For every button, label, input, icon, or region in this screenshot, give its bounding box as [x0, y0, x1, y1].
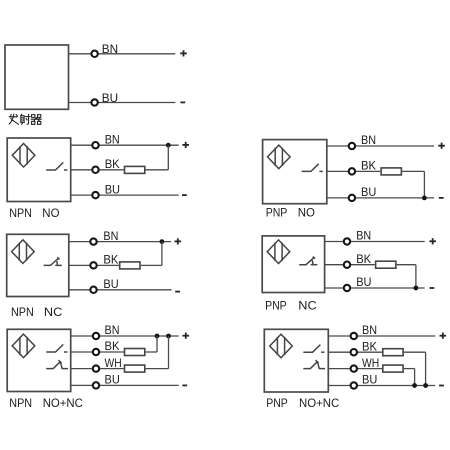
NC contact NPN NC [44, 257, 62, 265]
svg-text:BK: BK [362, 339, 377, 353]
plus transmitter + [180, 50, 187, 56]
wire WH left PNP NO+NC [328, 368, 382, 370]
svg-text:NC: NC [44, 305, 63, 319]
NO contact PNP NO [302, 164, 323, 172]
wire BN PNP NC [325, 241, 425, 243]
sensor box PNP NC [262, 236, 324, 293]
svg-text:NO: NO [42, 206, 59, 220]
junction BU first PNP NO+NC [412, 383, 417, 388]
NPN NC diagram [7, 229, 181, 319]
wire WH right PNP NO+NC [404, 368, 415, 370]
wire BK right NPN NO+NC [146, 351, 157, 353]
sensor symbol NPN NC [12, 240, 35, 264]
junction BU PNP NC [414, 286, 419, 291]
plus NPN NC + [175, 238, 182, 244]
NPN NO diagram [7, 132, 189, 220]
wire BU PNP NC [325, 287, 425, 289]
wire BN PNP NO [327, 145, 434, 147]
resistor WH load NPN NO+NC [125, 365, 145, 372]
terminal BU NPN NO [92, 192, 98, 198]
svg-text:BU: BU [362, 373, 377, 387]
svg-text:NO+NC: NO+NC [299, 396, 340, 410]
terminal WH PNP NO+NC [351, 365, 357, 371]
terminal BN PNP NO [349, 143, 355, 149]
resistor load PNP NC [376, 261, 396, 268]
caption 发射器 [9, 114, 41, 124]
terminal BU PNP NO [349, 195, 355, 201]
NO contact NPN NO+NC [46, 344, 67, 352]
terminal BK NPN NO [92, 167, 98, 173]
wire BK right PNP NC [397, 264, 416, 266]
sensor box PNP NO [263, 140, 327, 204]
junction BN first NPN NO+NC [155, 334, 160, 339]
svg-text:BU: BU [356, 275, 371, 289]
svg-text:NPN: NPN [9, 206, 32, 220]
wire WH left NPN NO+NC [71, 368, 124, 370]
sensor box transmitter [5, 45, 69, 109]
PNP NO diagram [263, 133, 445, 220]
svg-text:PNP: PNP [266, 206, 288, 220]
svg-text:BU: BU [361, 185, 376, 199]
svg-text:NC: NC [298, 298, 317, 312]
plus PNP NO+NC + [440, 333, 447, 339]
svg-text:NO+NC: NO+NC [43, 396, 84, 410]
svg-text:BK: BK [105, 339, 120, 353]
minus NPN NC - [175, 291, 180, 293]
terminal BK NPN NC [90, 262, 96, 268]
minus NPN NO - [182, 194, 187, 196]
resistor load NPN NC [120, 262, 140, 269]
terminal BN transmitter [91, 51, 97, 57]
junction BN second NPN NO+NC [166, 334, 171, 339]
wire BN PNP NO+NC [328, 335, 435, 337]
sensor symbol PNP NO+NC [270, 334, 293, 358]
sensor box NPN NO [7, 138, 70, 202]
minus transmitter - [180, 101, 185, 103]
svg-text:BN: BN [105, 323, 120, 337]
wire BK riser NPN NC [161, 242, 163, 266]
svg-text:BN: BN [105, 132, 120, 146]
wire BN NPN NO+NC [71, 335, 179, 337]
terminal BN NPN NC [90, 238, 96, 244]
wire BK left NPN NC [69, 264, 119, 266]
terminal BK PNP NO+NC [351, 349, 357, 355]
resistor BK load NPN NO+NC [125, 349, 145, 356]
svg-text:BU: BU [105, 182, 120, 196]
svg-text:WH: WH [105, 356, 122, 370]
wire WH dropper PNP NO+NC [414, 369, 416, 386]
minus NPN NO+NC - [182, 384, 187, 386]
wire BU transmitter [69, 102, 176, 104]
svg-text:BK: BK [103, 253, 118, 267]
terminal BN NPN NO [92, 142, 98, 148]
wire BU NPN NC [69, 289, 172, 291]
minus PNP NO - [439, 197, 444, 199]
svg-text:BK: BK [105, 157, 120, 171]
wire BK dropper PNP NC [415, 265, 417, 288]
terminal BU NPN NC [90, 287, 96, 293]
sensor symbol NPN NO+NC [12, 334, 35, 358]
terminal BU transmitter [91, 99, 97, 105]
wire BK riser NPN NO+NC [156, 336, 158, 352]
terminal BU NPN NO+NC [93, 382, 99, 388]
minus PNP NO+NC - [439, 385, 444, 387]
plus NPN NO+NC + [183, 333, 190, 339]
sensor symbol PNP NC [267, 240, 290, 264]
svg-text:BN: BN [362, 323, 377, 337]
NPN NO+NC diagram [7, 323, 189, 410]
wire BK left PNP NC [325, 264, 375, 266]
wire BU NPN NO+NC [71, 384, 179, 386]
terminal BU PNP NC [344, 285, 350, 291]
terminal BN NPN NO+NC [93, 333, 99, 339]
wire BK left NPN NO [71, 169, 124, 171]
svg-text:BU: BU [103, 277, 118, 291]
wire WH riser NPN NO+NC [168, 336, 170, 369]
svg-text:BU: BU [102, 91, 118, 105]
resistor load PNP NO [381, 168, 401, 175]
svg-text:NO: NO [298, 206, 315, 220]
svg-text:BN: BN [102, 42, 118, 56]
junction BN NPN NO [166, 143, 171, 148]
wire BU PNP NO+NC [328, 385, 435, 387]
resistor BK load PNP NO+NC [383, 349, 403, 356]
terminal BN PNP NC [344, 238, 350, 244]
wire BK right PNP NO+NC [404, 351, 426, 353]
wire BK dropper PNP NO [423, 171, 425, 198]
sensor box NPN NO+NC [7, 329, 70, 391]
svg-text:BU: BU [105, 373, 120, 387]
plus PNP NO + [438, 143, 445, 149]
terminal BK NPN NO+NC [93, 349, 99, 355]
PNP NO+NC diagram [264, 323, 446, 410]
wire BN NPN NC [69, 241, 171, 243]
PNP NC diagram [262, 229, 436, 313]
minus PNP NC - [430, 287, 435, 289]
junction BU second PNP NO+NC [423, 383, 428, 388]
NC contact NPN NO+NC [46, 360, 68, 368]
sensor box PNP NO+NC [264, 329, 328, 392]
resistor load NPN NO [125, 166, 145, 173]
terminal BN PNP NO+NC [351, 333, 357, 339]
NO contact PNP NO+NC [303, 345, 324, 353]
svg-text:BK: BK [356, 252, 371, 266]
plus NPN NO + [182, 142, 189, 148]
svg-text:BN: BN [103, 229, 118, 243]
wire BK riser NPN NO [167, 145, 169, 170]
wire BK right NPN NO [146, 169, 169, 171]
sensor box NPN NC [7, 234, 69, 296]
wire BK right NPN NC [141, 264, 162, 266]
wire WH right NPN NO+NC [146, 368, 169, 370]
svg-text:PNP: PNP [265, 298, 287, 312]
svg-text:BN: BN [356, 229, 371, 243]
NC contact PNP NO+NC [303, 360, 325, 368]
wire BK right PNP NO [402, 170, 424, 172]
svg-text:NPN: NPN [11, 305, 34, 319]
svg-text:BK: BK [361, 159, 376, 173]
svg-text:PNP: PNP [266, 396, 288, 410]
terminal WH NPN NO+NC [93, 365, 99, 371]
svg-text:BN: BN [361, 133, 376, 147]
svg-text:WH: WH [362, 356, 379, 370]
terminal BK PNP NC [344, 262, 350, 268]
junction BU PNP NO [422, 196, 427, 201]
wire BN transmitter [69, 53, 176, 55]
wire BK left PNP NO [327, 170, 381, 172]
plus PNP NC + [429, 238, 436, 244]
junction BN NPN NC [160, 239, 165, 244]
wire BK dropper PNP NO+NC [425, 352, 427, 385]
terminal BU PNP NO+NC [351, 382, 357, 388]
sensor symbol PNP NO [268, 145, 291, 169]
wire BU PNP NO [327, 197, 434, 199]
sensor symbol NPN NO [12, 144, 35, 168]
NC contact PNP NC [299, 257, 317, 265]
wire BN NPN NO [71, 144, 179, 146]
resistor WH load PNP NO+NC [383, 365, 403, 372]
wire BU NPN NO [71, 194, 179, 196]
transmitter diagram [5, 42, 187, 124]
svg-text:NPN: NPN [9, 396, 32, 410]
wire BK left NPN NO+NC [71, 351, 124, 353]
wire BK left PNP NO+NC [328, 351, 382, 353]
terminal BK PNP NO [349, 168, 355, 174]
NO contact NPN NO [46, 162, 67, 170]
